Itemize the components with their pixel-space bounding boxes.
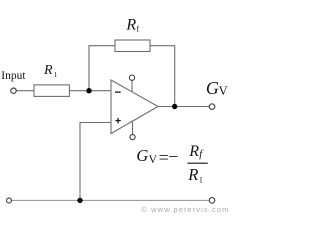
node C junction [77,198,82,203]
wire top power stub [131,80,133,92]
svg-text:R: R [187,165,198,184]
svg-text:1: 1 [199,176,203,185]
resistor R1 [34,85,69,97]
svg-text:−: − [168,147,178,167]
label GV at output [206,78,228,98]
wire feedback tap from node A up to Rf [89,46,115,91]
svg-text:© www.petervis.com: © www.petervis.com [141,205,229,214]
formula GV = -Rf/R1 [136,143,207,185]
minus sign at inverting input [115,91,121,93]
output terminal GV [209,104,215,110]
svg-text:G: G [136,146,148,165]
svg-text:R: R [188,143,199,160]
wire op-amp output to terminal [158,106,209,108]
svg-text:1: 1 [54,71,58,79]
label Rf [125,17,139,34]
wire bottom rail [12,199,209,201]
node A junction [86,88,91,93]
label R1 [43,63,58,79]
bottom-left ground terminal [7,198,12,203]
svg-text:G: G [206,78,219,98]
svg-text:V: V [149,154,158,166]
wire non-inverting input down to node C [80,123,111,201]
wire Rf to output node B [150,46,175,107]
svg-text:V: V [219,84,228,98]
wire input terminal to R1 [16,90,34,92]
node B junction [172,104,177,109]
svg-text:R: R [43,63,53,78]
bottom power pin [130,135,135,140]
top power pin [129,75,134,80]
op-amp U1 [111,80,158,134]
resistor Rf [115,40,150,52]
plus sign at non-inverting input [115,120,120,122]
svg-text:f: f [199,149,204,160]
wire R1 to op-amp inverting input [69,90,111,92]
svg-text:Input: Input [1,70,26,82]
svg-text:f: f [137,25,140,34]
input terminal [11,88,16,93]
wire bottom power stub [132,121,134,135]
svg-text:R: R [125,17,136,34]
bottom-right ground terminal [209,198,215,204]
